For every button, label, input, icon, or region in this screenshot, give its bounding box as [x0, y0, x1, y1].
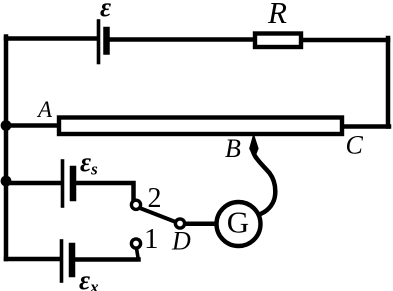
- wire: right vertical: [386, 38, 391, 127]
- wire: top from resistor R to right corner: [303, 38, 388, 43]
- svg-text:2: 2: [148, 183, 162, 214]
- svg-text:R: R: [267, 0, 287, 30]
- wire: from node A junction to slide wire left end: [6, 123, 59, 128]
- switch contact 1 (open circle): [131, 239, 140, 248]
- battery E_x long plate: [60, 241, 64, 281]
- wire: top left horizontal from left corner to battery E: [6, 36, 97, 41]
- wire: top from battery E to resistor R: [110, 37, 254, 42]
- wire: E_s to switch contact 2: [76, 183, 134, 200]
- resistor R body: [255, 34, 301, 48]
- galvanometer G circle: [217, 202, 261, 246]
- svg-text:G: G: [227, 205, 249, 240]
- wire: left vertical main bus: [4, 37, 9, 260]
- wire: curved lead from slider B to galvanometer G: [254, 154, 275, 214]
- svg-text:εs: εs: [80, 147, 98, 179]
- svg-text:D: D: [171, 227, 191, 256]
- switch contact 2 (open circle): [131, 200, 140, 209]
- wire: stub from bottom wire up to contact 1: [137, 249, 139, 258]
- wire: E_s branch horizontal: [6, 181, 61, 186]
- svg-text:ε: ε: [100, 0, 111, 22]
- slider arrow at B (contact on slide wire): [250, 136, 258, 158]
- node A junction dot: [1, 120, 12, 131]
- battery E_s long plate: [61, 161, 65, 206]
- svg-text:A: A: [36, 97, 53, 122]
- svg-text:εx: εx: [79, 265, 99, 291]
- wire: E_x to switch contact 1: [75, 257, 139, 262]
- svg-text:1: 1: [144, 223, 159, 255]
- switch pivot D (open circle): [175, 219, 184, 228]
- battery E short thick plate: [103, 30, 110, 52]
- battery E_x short thick plate: [69, 246, 76, 274]
- wire: from right vertical to slide wire right end C: [343, 124, 389, 129]
- battery E_s short thick plate: [70, 169, 77, 198]
- svg-text:C: C: [346, 131, 364, 160]
- switch arm from contact 2 to pivot D (closed): [141, 209, 175, 222]
- wire: bottom E_x branch: [6, 257, 60, 262]
- slide wire AC (potentiometer bar): [59, 118, 342, 135]
- node junction dot (E_s branch): [1, 176, 12, 187]
- wire: from pivot D to galvanometer G: [185, 222, 216, 227]
- svg-text:B: B: [225, 134, 241, 163]
- battery E long plate: [97, 21, 101, 63]
